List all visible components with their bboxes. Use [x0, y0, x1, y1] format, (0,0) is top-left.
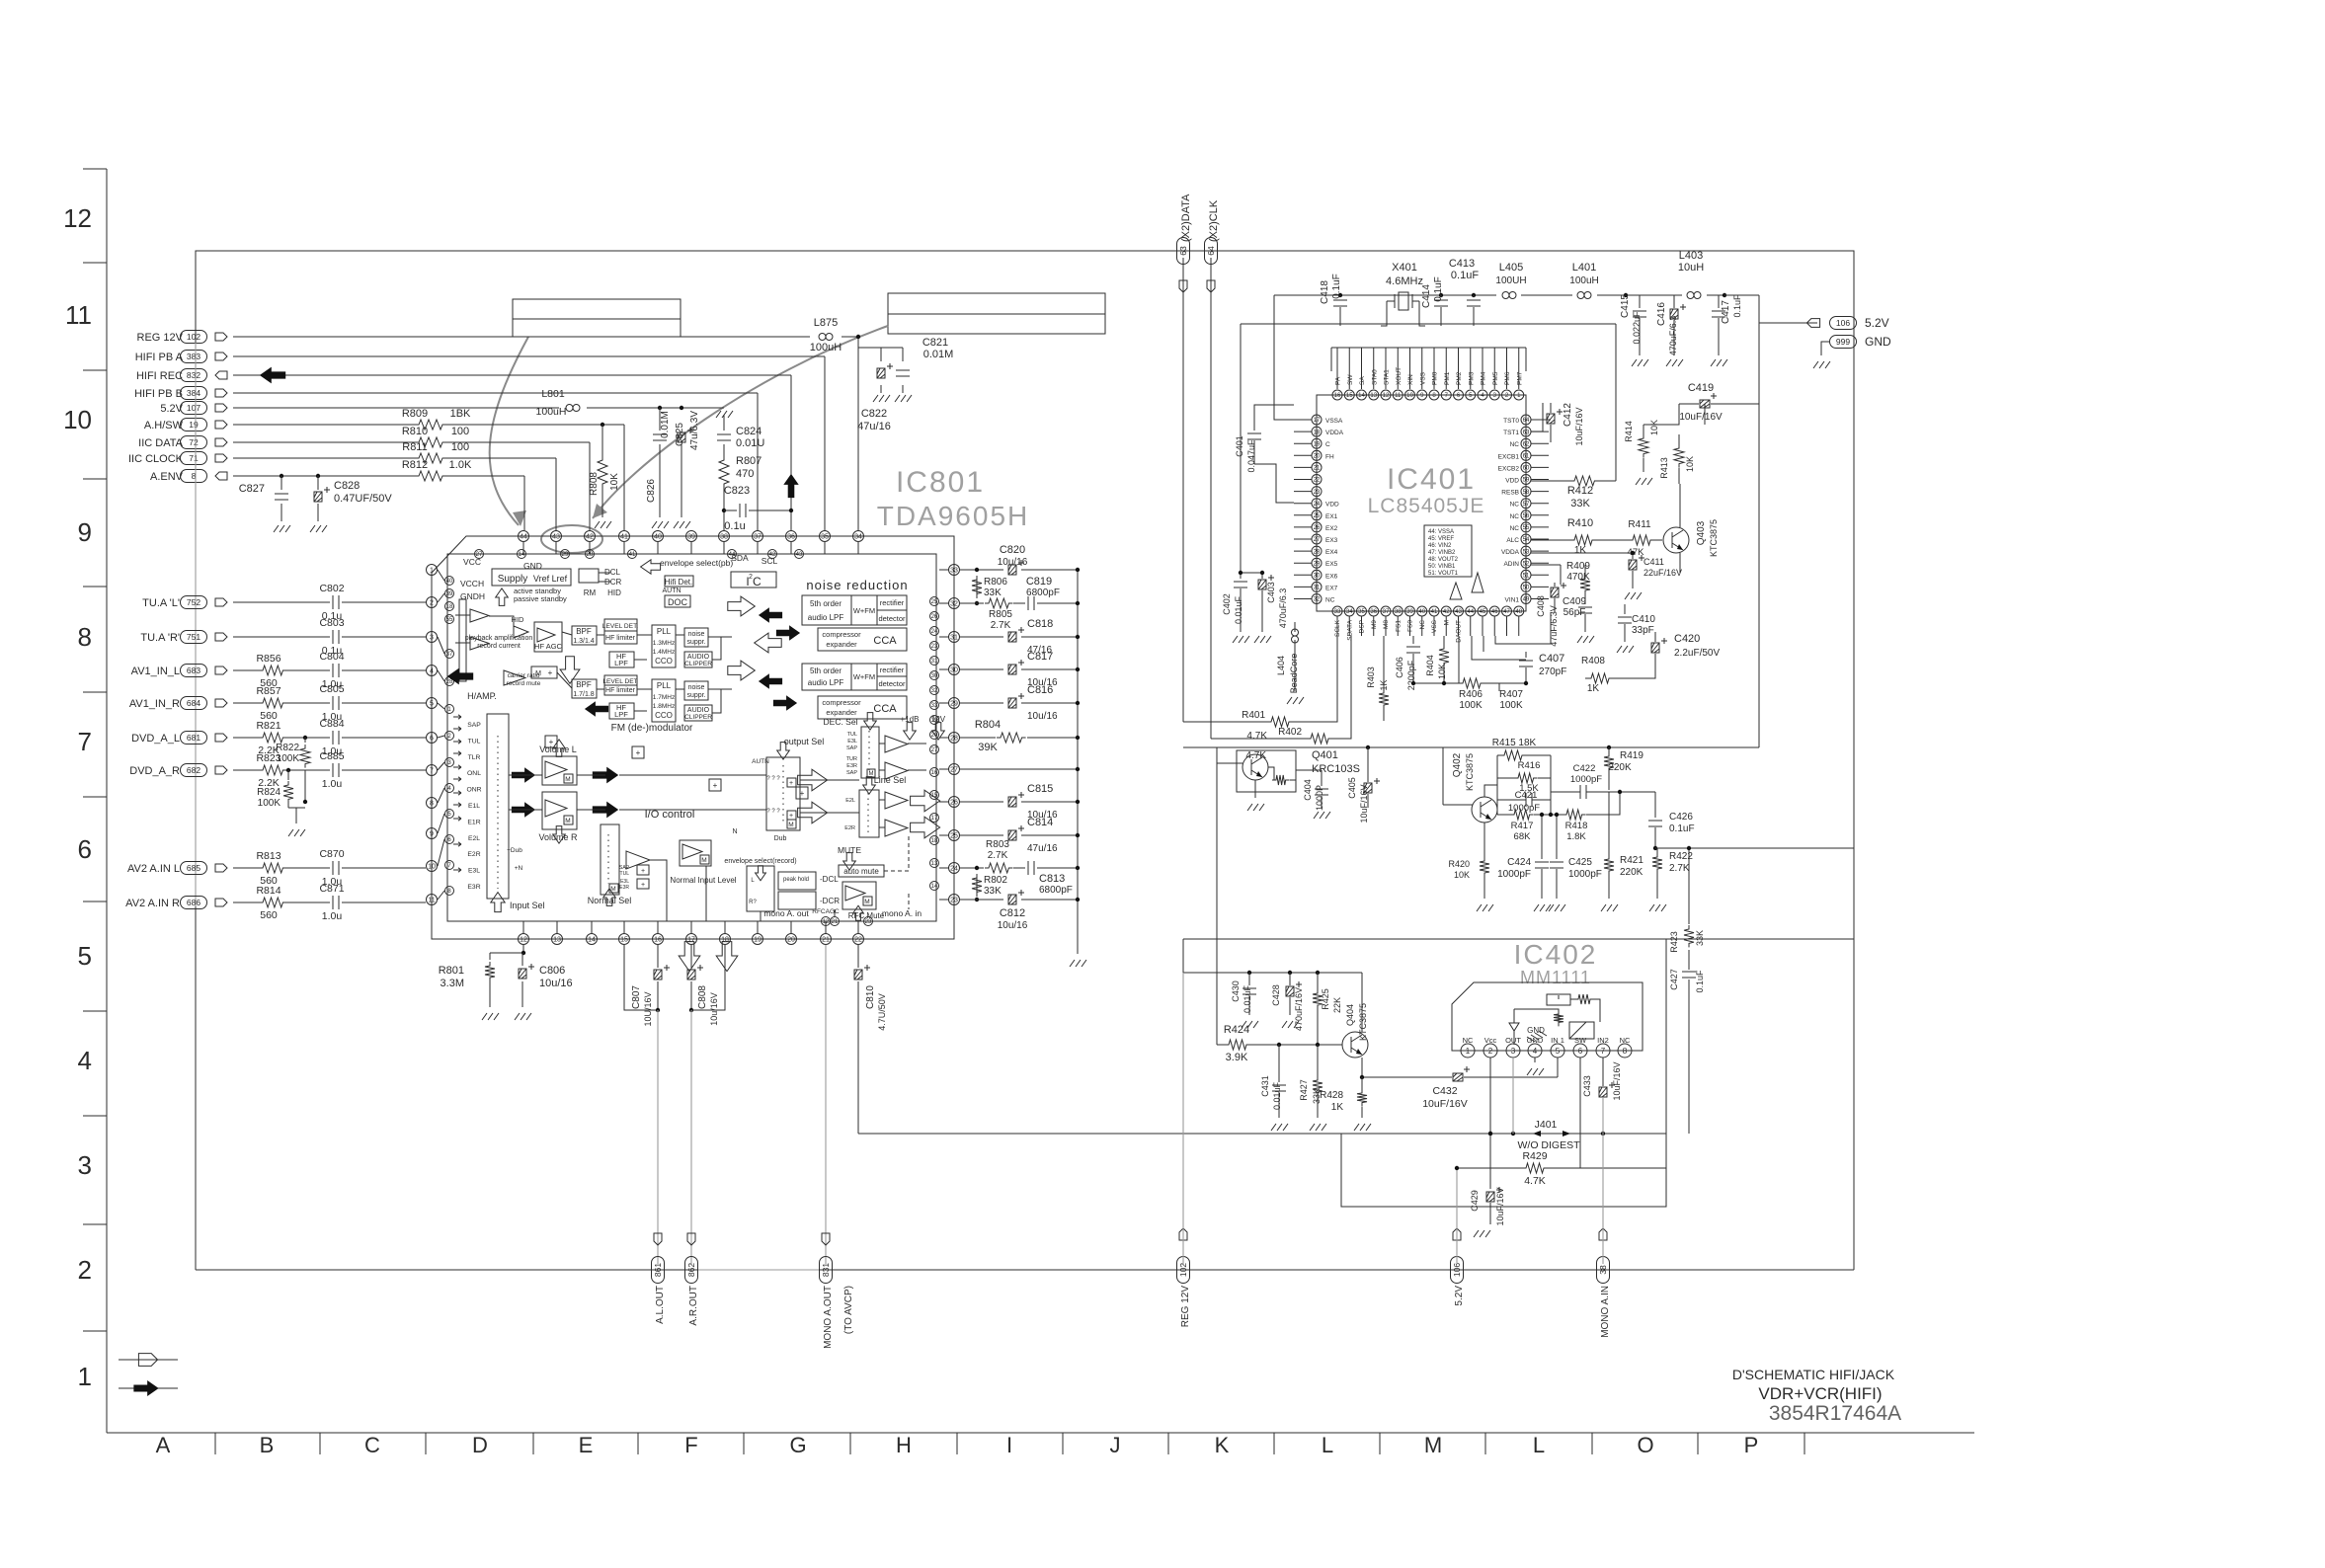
svg-text:R821: R821 [256, 720, 281, 732]
wire DVD_A_L [233, 737, 426, 739]
svg-text:7: 7 [1601, 1047, 1606, 1056]
svg-text:1000P: 1000P [1315, 785, 1324, 811]
svg-text:FM (de-)modulator: FM (de-)modulator [611, 723, 693, 734]
wire p18 drop [691, 945, 725, 1010]
block CCA 2 [818, 696, 907, 719]
svg-text:+: + [800, 789, 805, 798]
svg-text:25: 25 [950, 833, 958, 840]
callout ellipse [541, 525, 602, 553]
svg-text:14: 14 [588, 937, 596, 944]
svg-text:11: 11 [428, 898, 435, 904]
wire ic801 inner2 [634, 637, 732, 713]
svg-text:C427: C427 [1669, 969, 1679, 990]
svg-text:C803: C803 [319, 617, 344, 629]
svg-text:VDR+VCR(HIFI): VDR+VCR(HIFI) [1758, 1384, 1882, 1403]
svg-text:39: 39 [687, 534, 695, 541]
svg-text:4: 4 [78, 1046, 92, 1075]
svg-text:38: 38 [1598, 1265, 1608, 1275]
svg-text:R824: R824 [257, 787, 281, 798]
svg-text:passive standby: passive standby [514, 594, 567, 603]
svg-text:Input Sel: Input Sel [510, 901, 545, 910]
label J401 [1518, 1119, 1581, 1151]
capacitor C819 [1026, 576, 1060, 610]
capacitor C871 [319, 883, 344, 922]
node DVD_A_L [131, 732, 227, 745]
block auto mute [839, 865, 884, 877]
block RFC mute [812, 882, 885, 920]
svg-text:1K: 1K [1331, 1102, 1344, 1113]
svg-text:R407: R407 [1499, 689, 1523, 700]
resistor R409 [1531, 561, 1590, 604]
svg-text:32: 32 [1314, 597, 1321, 603]
svg-text:6: 6 [78, 834, 92, 864]
svg-text:12: 12 [63, 203, 92, 233]
labels input rows [466, 722, 481, 891]
svg-text:25: 25 [931, 599, 938, 605]
inductor L801 [536, 388, 580, 418]
svg-text:VSS: VSS [1419, 371, 1426, 385]
svg-text:10uF/16V: 10uF/16V [1574, 407, 1584, 445]
svg-text:470K: 470K [1566, 572, 1590, 583]
svg-text:compressor: compressor [822, 630, 861, 639]
svg-text:0.01M: 0.01M [923, 349, 954, 360]
resistor R822 [276, 736, 310, 802]
svg-text:L: L [1322, 1433, 1333, 1457]
svg-text:PM3: PM3 [1468, 371, 1475, 385]
svg-text:H/AMP.: H/AMP. [467, 691, 497, 701]
svg-text:51: VOUT1: 51: VOUT1 [1428, 571, 1459, 577]
svg-text:C409: C409 [1563, 596, 1586, 607]
capacitor C416 [1656, 295, 1686, 366]
svg-text:R425: R425 [1321, 988, 1330, 1010]
svg-text:EX1: EX1 [1325, 513, 1338, 520]
svg-text:47u/6.3V: 47u/6.3V [689, 411, 700, 450]
svg-text:9: 9 [430, 831, 434, 838]
wire HIFI PB A [233, 356, 825, 530]
svg-text:C884: C884 [319, 718, 344, 730]
arrow nr4 [755, 633, 782, 653]
svg-text:STA0: STA0 [1371, 369, 1378, 385]
svg-text:TST0: TST0 [1503, 418, 1519, 425]
block HifiDet [665, 576, 693, 587]
wire ic401 bottomnet [1459, 612, 1551, 683]
svg-text:R404: R404 [1425, 655, 1435, 676]
wire IIC DATA [233, 442, 590, 530]
IC402 pins [1461, 1036, 1632, 1058]
svg-text:33: 33 [950, 568, 958, 575]
svg-text:862: 862 [686, 1263, 696, 1277]
svg-text:1.0K: 1.0K [449, 459, 472, 471]
svg-text:XIN: XIN [1407, 374, 1414, 385]
capacitor C814 [1008, 817, 1058, 854]
wire ic401 left [1239, 295, 1294, 575]
svg-text:47u/16: 47u/16 [857, 421, 891, 432]
capacitor C820 [998, 544, 1028, 575]
capacitor C432 [1362, 1058, 1558, 1110]
capacitor C414 [1421, 276, 1448, 326]
svg-text:10: 10 [63, 405, 92, 434]
svg-text:383: 383 [187, 352, 200, 361]
label FM demod [611, 723, 693, 734]
svg-text:4.7K: 4.7K [1246, 731, 1267, 742]
label SDA SCL [731, 553, 777, 566]
svg-text:0.1uF: 0.1uF [1451, 270, 1479, 281]
wire p25 [960, 833, 1080, 837]
wire p32 [960, 601, 1080, 605]
arrow hflpf left [585, 701, 608, 716]
svg-text:5.2V: 5.2V [1865, 316, 1889, 330]
svg-text:HID: HID [607, 588, 621, 597]
svg-text:41: 41 [629, 552, 636, 558]
svg-text:6: 6 [1578, 1047, 1583, 1056]
svg-text:HIFI REC: HIFI REC [136, 370, 183, 382]
title block [1732, 1367, 1901, 1425]
inductor L875 [810, 317, 842, 353]
svg-text:C806: C806 [539, 965, 565, 977]
svg-text:LC85405JE: LC85405JE [1368, 495, 1485, 517]
svg-text:R804: R804 [975, 719, 1001, 731]
svg-text:C416: C416 [1656, 302, 1667, 326]
wire pC817 [960, 667, 1080, 671]
svg-text:VDDA: VDDA [1501, 549, 1520, 556]
transistor Q402 [1452, 752, 1497, 823]
arrow nr2 [759, 607, 782, 622]
svg-text:106: 106 [1452, 1263, 1462, 1277]
svg-text:R411: R411 [1628, 519, 1651, 530]
svg-text:36: 36 [1370, 609, 1377, 615]
IC801 top pins [519, 531, 864, 542]
svg-text:752: 752 [187, 597, 200, 607]
svg-text:C812: C812 [1000, 907, 1025, 919]
svg-text:100K: 100K [277, 753, 300, 764]
block LEVELDET 1 [602, 619, 639, 644]
svg-text:C819: C819 [1026, 576, 1052, 588]
svg-text:59: 59 [1523, 478, 1530, 484]
capacitor C808 [687, 965, 719, 1026]
node MONO A.IN bottom [1597, 1228, 1612, 1338]
wire 52v drop [1455, 1166, 1459, 1264]
svg-text:35: 35 [1358, 609, 1365, 615]
IC402 internals [1509, 994, 1600, 1045]
wire bottom pin risers [523, 921, 858, 933]
wire p28 [960, 736, 1080, 740]
svg-text:REG 12V: REG 12V [137, 332, 184, 344]
svg-text:C805: C805 [319, 683, 344, 695]
capacitor C803 [319, 617, 344, 657]
resistor R410 [1531, 517, 1620, 556]
resistor R803 [985, 839, 1012, 873]
capacitor C825 [674, 411, 700, 528]
arrow line out1 [911, 790, 940, 812]
svg-text:PM4: PM4 [1481, 371, 1487, 385]
svg-text:M: M [565, 818, 570, 824]
svg-text:LEVEL DET: LEVEL DET [602, 678, 637, 685]
svg-text:10u/16: 10u/16 [539, 978, 573, 989]
svg-text:72: 72 [189, 437, 199, 447]
svg-text:R802: R802 [984, 875, 1007, 886]
svg-text:0.01uF: 0.01uF [1234, 595, 1243, 624]
svg-text:100K: 100K [1499, 700, 1523, 711]
svg-text:L: L [1533, 1433, 1545, 1457]
resistor R417 [1497, 810, 1551, 842]
wire REG12V [233, 335, 860, 530]
svg-text:R814: R814 [256, 885, 281, 897]
svg-text:AUTN: AUTN [662, 588, 681, 594]
block plus1 [545, 736, 557, 747]
svg-text:AV1_IN_L: AV1_IN_L [131, 666, 180, 677]
svg-text:831: 831 [821, 1263, 831, 1277]
svg-text:M: M [788, 822, 793, 828]
block output Sel [752, 737, 824, 830]
svg-text:2.7K: 2.7K [1669, 863, 1690, 874]
svg-text:100: 100 [451, 441, 469, 453]
wire outer loop [196, 251, 1854, 1270]
svg-text:noise: noise [688, 684, 705, 691]
svg-text:470uF/6.3: 470uF/6.3 [1278, 588, 1288, 629]
resistor R804 [975, 719, 1026, 753]
svg-text:PM6: PM6 [1504, 371, 1511, 385]
arrow outsel L [798, 769, 828, 791]
svg-text:C824: C824 [736, 426, 762, 437]
svg-text:C412: C412 [1563, 403, 1573, 427]
capacitor C805 [319, 683, 344, 723]
block AUDIOCLIP 1 [684, 652, 712, 667]
svg-text:R424: R424 [1224, 1024, 1249, 1036]
svg-text:XOUT: XOUT [1396, 367, 1403, 385]
svg-text:R803: R803 [986, 839, 1009, 850]
svg-text:H: H [896, 1433, 912, 1457]
svg-text:VDDA: VDDA [1325, 430, 1344, 436]
svg-text:C417: C417 [1721, 300, 1731, 324]
svg-text:39K: 39K [978, 742, 998, 753]
svg-text:B: B [260, 1433, 275, 1457]
block DEC Sel [824, 713, 879, 778]
resistor R811 [402, 441, 469, 463]
svg-text:EXCB2: EXCB2 [1498, 465, 1520, 472]
amp ic401 b [1450, 583, 1462, 599]
svg-text:A.L.OUT: A.L.OUT [655, 1286, 666, 1324]
svg-text:R?: R? [749, 900, 757, 905]
svg-text:21: 21 [822, 937, 830, 944]
svg-text:peak hold: peak hold [783, 877, 809, 883]
svg-text:22K: 22K [1332, 997, 1342, 1013]
svg-text:C406: C406 [1395, 657, 1404, 678]
svg-text:HIFI PB B: HIFI PB B [134, 388, 183, 400]
svg-text:26: 26 [1314, 525, 1321, 531]
svg-text:1: 1 [430, 568, 434, 575]
svg-text:3.3M: 3.3M [441, 978, 464, 989]
svg-text:TU.A 'L': TU.A 'L' [142, 597, 180, 609]
svg-text:51: 51 [1523, 573, 1530, 579]
svg-text:1.4MHz: 1.4MHz [653, 649, 675, 656]
svg-text:R427: R427 [1299, 1079, 1309, 1101]
svg-text:107: 107 [187, 403, 200, 413]
svg-text:12: 12 [1383, 393, 1390, 399]
resistor R403 [1366, 636, 1389, 721]
svg-text:28: 28 [950, 736, 958, 743]
wire sw drop [1579, 1058, 1581, 1168]
svg-text:SAP: SAP [846, 745, 857, 751]
svg-text:(X2)DATA: (X2)DATA [1180, 194, 1192, 242]
svg-text:E2L: E2L [845, 798, 855, 804]
resistor R810 [402, 426, 469, 447]
svg-text:C813: C813 [1039, 873, 1065, 885]
svg-text:2.7K: 2.7K [988, 850, 1008, 861]
svg-text:L404: L404 [1276, 656, 1286, 675]
amp out2 [885, 762, 908, 779]
svg-text:E3L: E3L [468, 868, 480, 875]
svg-text:42: 42 [1443, 609, 1450, 615]
amp playback1 [465, 609, 533, 650]
wire 5.2V [233, 406, 724, 410]
label IC801 [877, 466, 1030, 531]
svg-text:64: 64 [1206, 246, 1216, 256]
svg-text:1.3/1.4: 1.3/1.4 [573, 638, 595, 645]
arrow c808a [679, 942, 700, 972]
svg-text:LEVEL DET.: LEVEL DET. [602, 623, 639, 630]
svg-text:270pF: 270pF [1539, 666, 1566, 677]
svg-text:+: + [548, 668, 553, 677]
svg-text:6800pF: 6800pF [1039, 885, 1073, 896]
svg-text:0.047uF: 0.047uF [1246, 439, 1256, 473]
svg-text:STA1: STA1 [1384, 369, 1391, 385]
svg-text:detector: detector [878, 679, 906, 688]
wire q404 vert [1216, 747, 1218, 1045]
svg-text:HIFI PB A: HIFI PB A [135, 352, 184, 363]
svg-text:REG 12V: REG 12V [1180, 1286, 1191, 1328]
svg-text:R401: R401 [1242, 710, 1265, 721]
svg-text:KRC103S: KRC103S [1312, 763, 1360, 775]
wire AV2 A.IN L [233, 867, 426, 869]
svg-text:10U/16V: 10U/16V [643, 991, 653, 1026]
wire left bus [195, 343, 197, 906]
svg-text:470: 470 [736, 468, 754, 480]
svg-text:0.01uF: 0.01uF [1272, 1081, 1282, 1110]
svg-text:R857: R857 [256, 685, 281, 697]
svg-text:100K: 100K [1459, 700, 1483, 711]
wire HIFI REC [233, 367, 791, 530]
svg-text:? ? ?: ? ? ? [766, 809, 780, 815]
svg-text:41: 41 [620, 534, 628, 541]
svg-text:Supply: Supply [498, 574, 528, 585]
svg-text:46: VIN2: 46: VIN2 [1428, 543, 1452, 549]
wire AV1_IN_R [233, 702, 426, 704]
svg-text:A.R.OUT: A.R.OUT [688, 1286, 699, 1326]
svg-text:CCO: CCO [655, 711, 673, 720]
svg-text:E3R: E3R [619, 885, 629, 891]
svg-text:EX3: EX3 [1325, 537, 1338, 544]
svg-text:TLR: TLR [468, 754, 481, 761]
svg-text:10K: 10K [609, 473, 620, 491]
svg-text:E1L: E1L [468, 803, 480, 810]
svg-text:17: 17 [931, 816, 938, 822]
svg-text:R812: R812 [402, 459, 428, 471]
svg-text:10K: 10K [1454, 870, 1470, 880]
svg-text:50: 50 [1523, 586, 1530, 591]
resistor R809 [402, 408, 471, 430]
svg-text:detector: detector [878, 614, 906, 623]
capacitor C818 [1008, 618, 1053, 656]
svg-text:R412: R412 [1567, 485, 1593, 497]
label envselect [641, 558, 734, 574]
svg-text:0.1u: 0.1u [724, 520, 745, 532]
resistor R807 [719, 455, 762, 530]
svg-text:220K: 220K [1620, 867, 1644, 878]
svg-text:27: 27 [1314, 537, 1321, 543]
svg-text:RFCAGC: RFCAGC [812, 908, 840, 915]
node MONO A.OUT [820, 1257, 855, 1349]
svg-text:1.3MHz: 1.3MHz [653, 640, 675, 647]
svg-text:W+FM: W+FM [853, 606, 875, 615]
svg-text:C425: C425 [1568, 857, 1592, 868]
label +1dB 12V [901, 715, 946, 740]
svg-text:0.1uF: 0.1uF [1695, 970, 1705, 993]
block Input Sel [487, 714, 545, 912]
wire alout drop [654, 1010, 662, 1264]
svg-text:suppr.: suppr. [686, 639, 705, 646]
svg-text:R813: R813 [256, 850, 281, 862]
svg-text:18: 18 [1314, 430, 1321, 435]
svg-text:4.6MHz: 4.6MHz [1386, 275, 1423, 287]
svg-text:26: 26 [931, 614, 938, 620]
svg-text:31: 31 [950, 635, 958, 642]
amp normal [626, 851, 650, 869]
crystal X401 [1381, 262, 1425, 326]
svg-text:M: M [1424, 1433, 1442, 1457]
svg-text:R429: R429 [1522, 1150, 1547, 1162]
svg-text:56: 56 [1523, 513, 1530, 519]
svg-text:2.7K: 2.7K [991, 620, 1011, 631]
svg-text:D'SCHEMATIC HIFI/JACK: D'SCHEMATIC HIFI/JACK [1732, 1367, 1895, 1382]
svg-text:PM0: PM0 [1432, 371, 1439, 385]
block NormalInput [670, 840, 736, 885]
svg-text:suppr.: suppr. [686, 692, 705, 699]
resistor R414 [1624, 420, 1659, 485]
svg-text:TU.A 'R': TU.A 'R' [140, 632, 180, 644]
svg-text:1: 1 [78, 1362, 92, 1391]
svg-text:AUDIO: AUDIO [687, 707, 710, 714]
resistor R424 [1217, 1024, 1342, 1063]
IC401 bottom pins [1332, 606, 1524, 643]
svg-text:39: 39 [1406, 609, 1413, 615]
arrow c808b [716, 942, 738, 972]
arrow nr7 [773, 695, 797, 710]
callout arrow 1 [490, 337, 528, 526]
svg-text:28: 28 [1314, 549, 1321, 555]
svg-text:C410: C410 [1632, 614, 1655, 625]
svg-text:NC: NC [1620, 1036, 1631, 1045]
IC401 top pins [1332, 348, 1524, 400]
svg-text:24: 24 [931, 629, 938, 635]
capacitor C407 [1519, 652, 1566, 683]
svg-text:33K: 33K [984, 886, 1002, 897]
svg-text:470uF/16V: 470uF/16V [1294, 987, 1304, 1031]
svg-text:audio LPF: audio LPF [808, 613, 844, 622]
node (X2)DATA [1177, 194, 1193, 265]
svg-text:rectifier: rectifier [880, 598, 905, 607]
svg-text:10u/16: 10u/16 [998, 557, 1028, 568]
svg-text:Q403: Q403 [1696, 520, 1707, 545]
svg-text:C827: C827 [239, 483, 265, 495]
IC801 inner top pins [475, 550, 804, 559]
node 5.2V right [1830, 316, 1889, 330]
svg-text:VSSA: VSSA [1325, 418, 1343, 425]
block sapsum [619, 865, 649, 891]
svg-text:KTC3875: KTC3875 [1709, 519, 1719, 557]
svg-text:R811: R811 [402, 441, 427, 453]
svg-text:58: 58 [1523, 490, 1530, 496]
svg-text:48: VOUT2: 48: VOUT2 [1428, 557, 1459, 563]
